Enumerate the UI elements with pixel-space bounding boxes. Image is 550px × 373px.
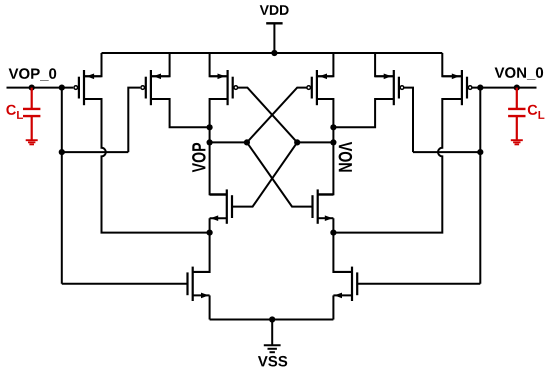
node right source junction [330, 230, 336, 236]
wire P3 gate diagonal [238, 88, 297, 143]
transistor P3 (PMOS) [210, 70, 238, 105]
wire P6 drain (hop) [333, 99, 462, 233]
node right branch junction [477, 149, 483, 155]
node VON junction lower [330, 139, 336, 145]
node left source junction [207, 230, 213, 236]
wire N3 source to VSS [209, 295, 211, 319]
wire P5 drain [333, 99, 393, 127]
label CL (right) [528, 105, 545, 119]
transistor N3 (tail NMOS) [188, 267, 210, 301]
wire P1 source stem [84, 53, 102, 76]
wire VON_0 [473, 87, 537, 89]
transistor P4 (PMOS) [307, 70, 333, 105]
wire VOP_0 [7, 87, 74, 89]
wire left gate link [62, 151, 129, 153]
wire VON rail [317, 99, 334, 194]
node VOP_0 label [9, 68, 57, 80]
node VON_0 cap junction [514, 85, 520, 91]
power symbol VDD [260, 5, 289, 53]
wire VDD rail [102, 52, 443, 54]
capacitor CL (right) [508, 88, 525, 145]
wire N2 source column [333, 218, 352, 272]
transistor N2 (NMOS) [313, 189, 334, 223]
wire right gate link [413, 151, 480, 153]
wire P1 drain (hop) [84, 99, 210, 233]
transistor P1 (PMOS) [74, 70, 102, 105]
wire P6 source stem [442, 53, 462, 76]
wire VON_0 vertical branch [479, 88, 481, 284]
wire P2 gate [128, 88, 140, 153]
node VOP_0 branch junction [59, 85, 65, 91]
node VOP junction lower [207, 139, 213, 145]
node VSS junction [269, 316, 275, 322]
transistor P5 (PMOS) [375, 70, 404, 105]
wire VOP rail [210, 99, 228, 194]
wire VOP to diamond [210, 141, 247, 143]
wire tail N4 gate [358, 283, 480, 285]
wire P2 source stem [151, 53, 170, 76]
label CL (left) [6, 105, 23, 119]
label VOP [192, 143, 206, 172]
node VON junction upper [330, 124, 336, 130]
node VON_0 branch junction [477, 85, 483, 91]
node VDD junction [271, 50, 277, 56]
node diamond left junction [244, 139, 250, 145]
transistor P6 (PMOS) [442, 70, 472, 105]
transistor N4 (tail NMOS) [333, 267, 357, 301]
node left branch junction [59, 149, 65, 155]
wire P2 drain [151, 99, 210, 127]
wire diamond to VON [297, 141, 333, 143]
ground VSS [258, 320, 287, 367]
node diamond right junction [294, 139, 300, 145]
wire P5 source stem [375, 53, 394, 76]
wire VSS rail [210, 319, 334, 321]
capacitor CL (left) [23, 88, 40, 145]
node VOP junction upper [207, 124, 213, 130]
wire P5 gate [404, 88, 413, 153]
wire N1 gate diagonal [232, 142, 297, 206]
transistor N1 (NMOS) [210, 189, 232, 223]
wire N4 source to VSS [332, 295, 334, 319]
wire N2 gate diagonal [247, 142, 313, 206]
wire N1 source column [193, 218, 210, 272]
wire P4 source stem [317, 53, 334, 76]
transistor P2 (PMOS) [141, 70, 170, 105]
wire VOP_0 vertical branch [61, 88, 63, 284]
wire P3 source stem [210, 53, 228, 76]
label VON [339, 142, 353, 172]
node VON_0 label [495, 67, 543, 79]
wire P4 gate diagonal [247, 88, 307, 143]
node VOP_0 cap junction [29, 85, 35, 91]
wire tail N3 gate [62, 283, 187, 285]
